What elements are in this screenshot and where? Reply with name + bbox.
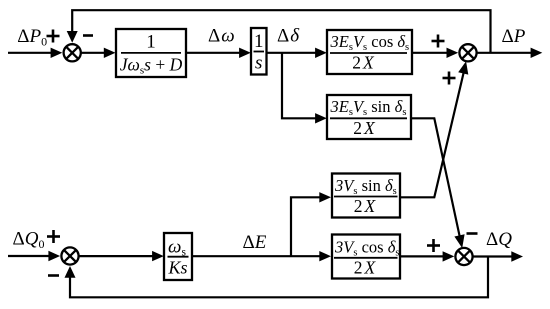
sign − at S1 (83, 34, 93, 37)
arrowhead into S1 top (67, 31, 78, 43)
block cos2: 3Vs cos δs / 2X (332, 235, 400, 279)
svg-text:2X: 2X (354, 257, 377, 277)
wire: top feedback from ΔP output to S1 (72, 10, 490, 53)
wire: ΔP0 input into S1 (8, 52, 52, 54)
svg-text:1: 1 (146, 32, 156, 53)
svg-text:1: 1 (254, 31, 264, 52)
svg-text:3Vs sin δs: 3Vs sin δs (334, 176, 397, 197)
svg-text:Ks: Ks (167, 258, 187, 278)
arrowhead into ω block (152, 251, 164, 261)
sign + at S2 bottom (443, 72, 456, 85)
arrowhead into sin1 (315, 113, 327, 123)
svg-text:Δω: Δω (208, 26, 235, 47)
sign + at S2 left (432, 35, 445, 48)
block sin2: 3Vs sin δs / 2X (332, 174, 400, 218)
arrowhead into S4 bottom (65, 266, 76, 278)
sign + at S1 (47, 30, 60, 43)
svg-text:3EsVs cos δs: 3EsVs cos δs (330, 32, 410, 53)
block G1: 1/(Jωs s + D) (116, 29, 186, 77)
wire: integrator to cos block, node Δδ (267, 52, 318, 54)
sign + at S4 (47, 230, 60, 243)
arrowhead into cos1 (315, 48, 327, 58)
wire: sin2 output to S2 (diagonal cross-coupling) (400, 72, 464, 198)
svg-text:s: s (255, 53, 262, 74)
wire: ΔQ0 input into S4 (8, 255, 49, 257)
svg-text:3EsVs sin δs: 3EsVs sin δs (330, 97, 407, 118)
block sin1: 3EsVs sin δs / 2X (327, 95, 411, 139)
svg-text:ΔE: ΔE (243, 232, 267, 253)
arrowhead into S2 left (447, 48, 459, 58)
wire: cos1 to S2 (412, 52, 448, 54)
arrowhead into S4 left (48, 251, 60, 261)
wire: S3 to ΔQ output (473, 255, 512, 257)
arrowhead into S3 left (443, 251, 455, 261)
summing junction S1 (64, 44, 81, 61)
svg-text:ΔP: ΔP (502, 26, 526, 47)
wire: S1 to block G1 (81, 52, 105, 54)
arrowhead into S3 top (454, 234, 464, 248)
wire: sin1 output to S3 (diagonal cross-coupling) (411, 118, 460, 239)
summing junction S2 (459, 44, 476, 61)
svg-text:2X: 2X (352, 53, 375, 73)
wire: S4 to ω block (79, 255, 154, 257)
block integrator 1/s (251, 28, 267, 75)
svg-text:2X: 2X (354, 196, 377, 216)
svg-text:Jωss + D: Jωss + D (120, 55, 183, 77)
sign − at S4 (48, 274, 59, 277)
arrowhead into block G1 (104, 48, 116, 58)
arrowhead into cos2 (319, 251, 331, 261)
arrowhead into sin2 (319, 192, 331, 202)
wire: cos2 to S3 (400, 255, 445, 257)
sign − at S3 top (467, 232, 478, 235)
wire: Δδ branch down to sin1 (282, 53, 317, 119)
summing junction S4 (61, 247, 78, 264)
svg-text:Δδ: Δδ (277, 26, 300, 47)
block cos1: 3EsVs cos δs / 2X (327, 30, 412, 74)
arrowhead into S2 bottom (458, 61, 468, 74)
arrowhead into integrator (239, 48, 251, 58)
svg-text:2X: 2X (353, 118, 376, 138)
wire: ω block to cos2, node ΔE (192, 255, 321, 257)
wire: ΔE branch up to sin2 (291, 197, 321, 256)
wire: G1 to integrator (186, 52, 241, 54)
arrowhead into S1 left (51, 48, 63, 58)
block ωs/Ks (164, 233, 192, 280)
sign + at S3 left (427, 239, 440, 252)
arrowhead ΔQ output (511, 251, 523, 261)
svg-text:3Vs cos δs: 3Vs cos δs (334, 238, 399, 259)
svg-text:ΔQ: ΔQ (486, 229, 512, 250)
wire: bottom feedback from ΔQ output to S4 (70, 257, 488, 298)
arrowhead ΔP output (531, 48, 543, 58)
summing junction S3 (455, 248, 472, 265)
wire: S2 to ΔP output (477, 52, 531, 54)
